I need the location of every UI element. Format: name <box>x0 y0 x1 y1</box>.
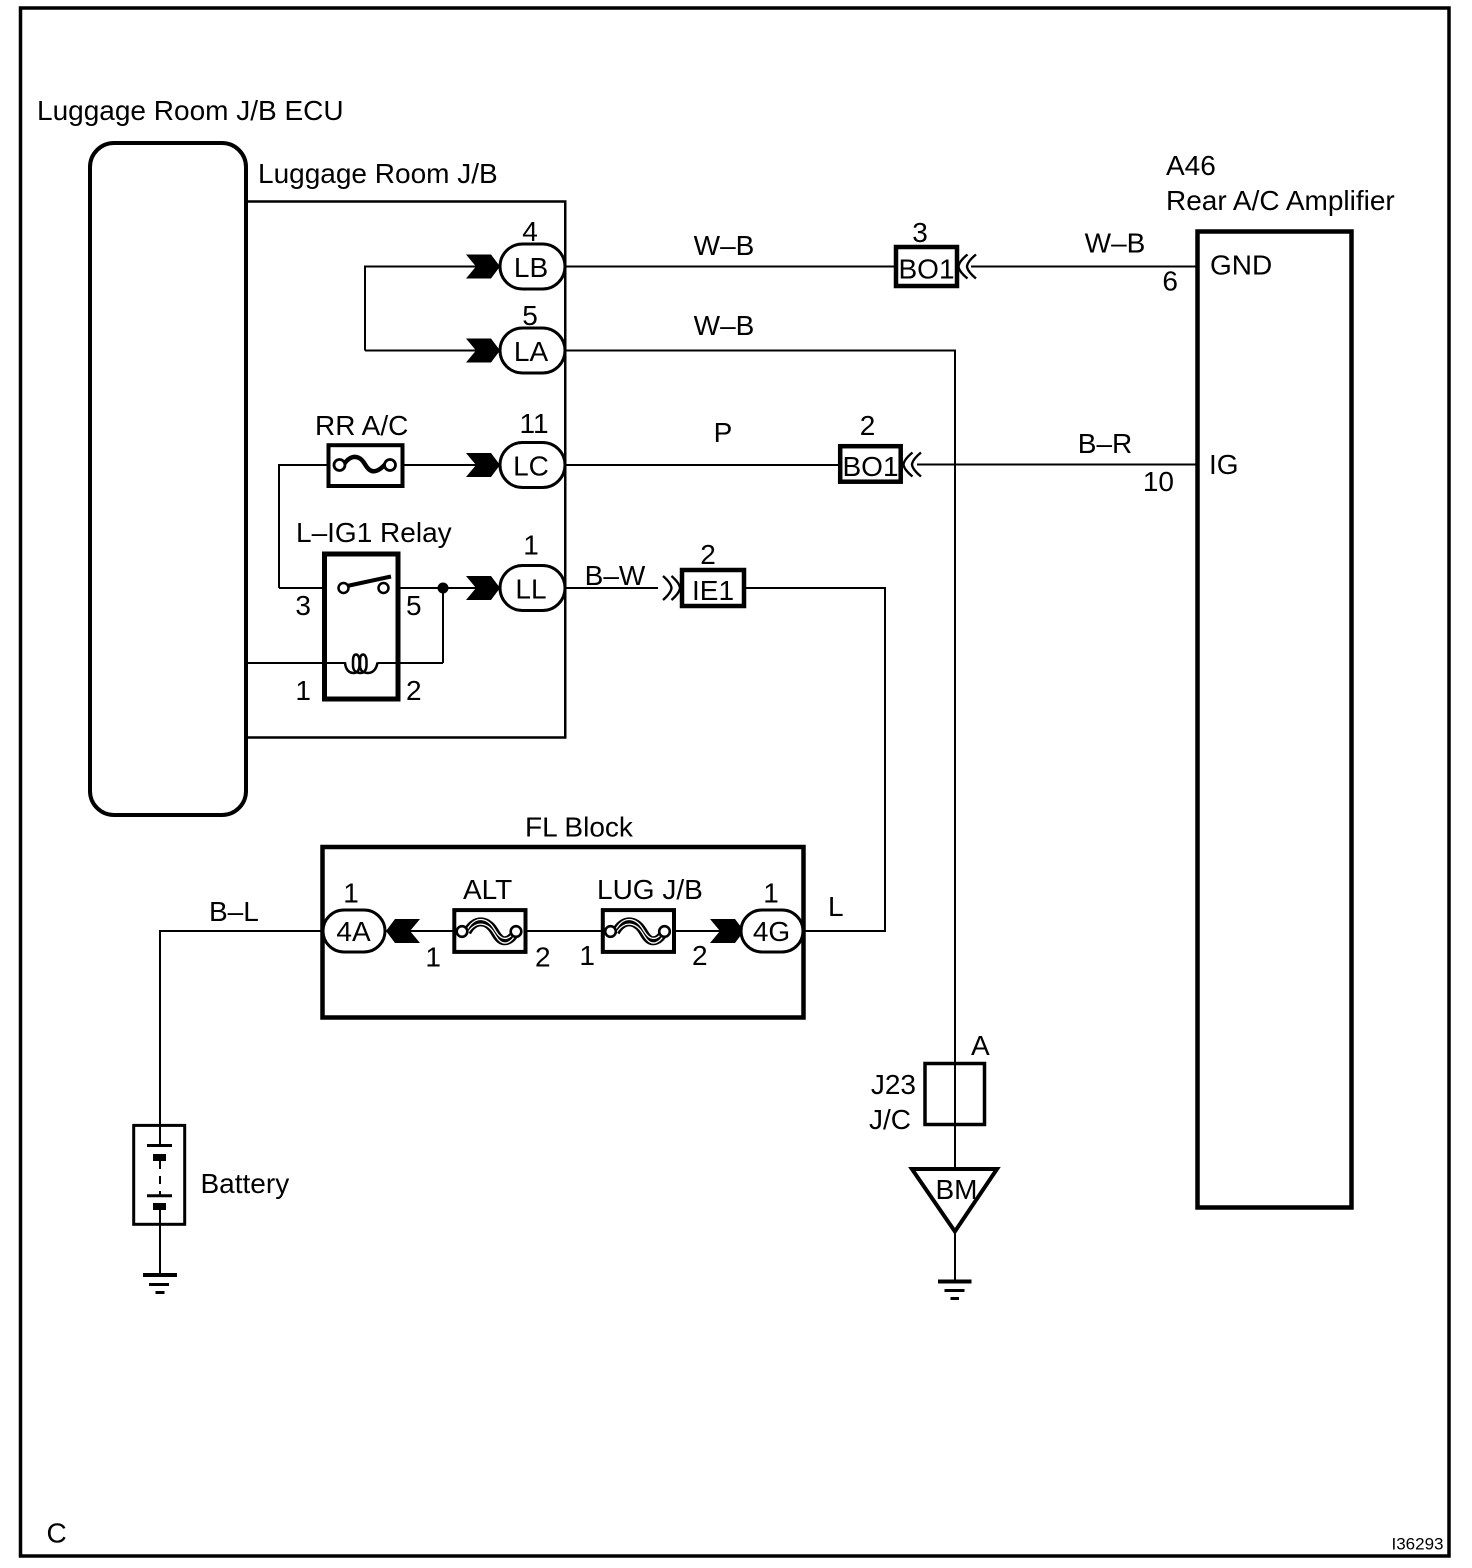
wire: into relay pin 3 <box>279 587 327 589</box>
svg-text:1: 1 <box>763 878 779 909</box>
junction connector J23 J/C <box>925 1064 985 1125</box>
relay coil <box>345 655 378 674</box>
relay coil lead right <box>378 662 397 664</box>
battery <box>134 1125 185 1224</box>
svg-text:2: 2 <box>700 539 716 570</box>
svg-text:A: A <box>971 1030 990 1061</box>
svg-text:11: 11 <box>519 408 548 439</box>
svg-text:LUG J/B: LUG J/B <box>597 874 703 905</box>
svg-text:LB: LB <box>514 252 548 283</box>
svg-text:W–B: W–B <box>1085 228 1146 259</box>
svg-text:LC: LC <box>513 451 549 482</box>
wire: battery to ground <box>159 1209 161 1275</box>
svg-text:Luggage Room J/B ECU: Luggage Room J/B ECU <box>37 95 344 126</box>
relay switch blade <box>347 577 391 587</box>
svg-text:1: 1 <box>343 878 359 909</box>
relay switch contact pin 5 <box>379 583 389 593</box>
wire: vertical to 4G <box>884 587 886 931</box>
svg-text:C: C <box>47 1518 67 1549</box>
svg-text:L: L <box>828 891 844 922</box>
arrow into LA <box>466 339 500 363</box>
svg-text:ALT: ALT <box>463 874 512 905</box>
svg-text:W–B: W–B <box>694 230 755 261</box>
arrow into LB <box>466 255 500 279</box>
svg-text:IE1: IE1 <box>692 575 734 606</box>
svg-text:BO1: BO1 <box>898 254 954 285</box>
connector BO1 (3) <box>896 247 957 286</box>
svg-text:FL Block: FL Block <box>525 812 634 843</box>
svg-text:A46: A46 <box>1166 150 1216 181</box>
ground (BM) <box>938 1282 972 1299</box>
FL block box <box>323 847 804 1018</box>
svg-text:2: 2 <box>406 675 422 706</box>
svg-text:5: 5 <box>522 300 538 331</box>
svg-text:B–W: B–W <box>585 560 646 591</box>
fuse RR A/C <box>329 445 403 486</box>
svg-text:BO1: BO1 <box>842 451 898 482</box>
wire: vertical from fuse to relay pin 3 <box>278 464 280 588</box>
svg-text:2: 2 <box>692 940 708 971</box>
svg-text:Luggage Room J/B: Luggage Room J/B <box>258 158 498 189</box>
svg-text:I36293: I36293 <box>1392 1535 1444 1554</box>
connector BO1 (2) <box>840 446 901 482</box>
svg-text:W–B: W–B <box>694 310 755 341</box>
arrow into LL <box>466 576 500 600</box>
svg-text:1: 1 <box>295 675 311 706</box>
arrow into LC <box>466 453 500 477</box>
svg-text:J23: J23 <box>871 1069 916 1100</box>
chevron into IE1 <box>663 576 680 600</box>
arrow into 4A <box>386 919 420 943</box>
svg-text:Battery: Battery <box>201 1168 290 1199</box>
svg-text:4A: 4A <box>336 916 371 947</box>
svg-text:B–L: B–L <box>209 896 259 927</box>
svg-text:RR A/C: RR A/C <box>315 410 408 441</box>
fusible link ALT <box>454 910 525 952</box>
wire: LC to BO1 (P) <box>565 464 840 466</box>
svg-text:BM: BM <box>936 1174 978 1205</box>
wire: LL to IE1 (B-W) <box>565 587 658 589</box>
svg-text:6: 6 <box>1162 266 1178 297</box>
wire: LA to vertical run (W-B) <box>565 350 956 352</box>
ECU block A46 Rear A/C Amplifier <box>1198 232 1352 1208</box>
connector 4G <box>741 910 803 952</box>
junction block: Luggage Room J/B <box>246 202 565 738</box>
ground (battery) <box>143 1275 177 1293</box>
svg-text:Rear A/C Amplifier: Rear A/C Amplifier <box>1166 185 1395 216</box>
connector LB <box>500 244 565 289</box>
connector LA <box>500 328 565 373</box>
chevron into BO1 (2) <box>904 453 922 477</box>
wire: LB-LA vertical link <box>364 266 366 351</box>
connector LC <box>500 443 565 488</box>
svg-text:3: 3 <box>912 217 928 248</box>
svg-text:IG: IG <box>1209 449 1239 480</box>
wire: vertical W-B run to BM junction <box>954 350 956 1170</box>
svg-text:10: 10 <box>1143 466 1174 497</box>
svg-text:5: 5 <box>406 590 422 621</box>
svg-text:1: 1 <box>523 530 539 561</box>
svg-text:2: 2 <box>860 410 876 441</box>
arrow into 4G <box>710 919 744 943</box>
wire: BM to ground <box>954 1232 956 1283</box>
wire: BO1 to A46 IG (B-R) <box>917 464 1196 466</box>
relay L-IG1 <box>325 554 399 699</box>
wire: LB-LA link left segment <box>365 266 500 268</box>
svg-text:1: 1 <box>579 940 595 971</box>
relay switch contact pin 3 <box>339 583 349 593</box>
relay coil lead left <box>327 662 346 664</box>
wire: vertical pin2 to node <box>442 588 444 663</box>
wire: FL block internal <box>384 930 744 932</box>
svg-text:GND: GND <box>1210 250 1272 281</box>
svg-text:J/C: J/C <box>869 1104 911 1135</box>
wire: link to LA <box>365 350 500 352</box>
wire: vertical B-L to battery <box>159 930 161 1146</box>
fusible link LUG J/B <box>603 910 674 952</box>
wire: LB to BO1 (W-B) <box>565 266 894 268</box>
wire: B-L from battery to 4A <box>160 930 323 932</box>
svg-text:3: 3 <box>295 590 311 621</box>
svg-text:L–IG1 Relay: L–IG1 Relay <box>296 517 452 548</box>
svg-text:1: 1 <box>425 942 441 973</box>
svg-text:LA: LA <box>514 336 549 367</box>
wire: BO1 to A46 GND (W-B) <box>971 266 1196 268</box>
junction node <box>438 583 449 594</box>
wire: fuse to LC arrow <box>403 464 500 466</box>
wire: fuse left lead <box>279 464 330 466</box>
wire: ECU to relay coil pin 1 <box>247 662 324 664</box>
wire: to 4G (L) <box>803 930 886 932</box>
wire: IE1 toward FL block <box>746 587 886 589</box>
wire: relay pin 5 to LL <box>398 587 500 589</box>
ECU block: Luggage Room J/B ECU <box>90 143 246 815</box>
svg-text:4: 4 <box>522 216 538 247</box>
chevron into BO1 (3) <box>959 255 977 279</box>
svg-text:B–R: B–R <box>1078 428 1132 459</box>
ground point BM triangle <box>912 1169 997 1232</box>
svg-text:LL: LL <box>515 574 546 605</box>
connector 4A <box>323 910 385 952</box>
svg-text:4G: 4G <box>753 916 790 947</box>
svg-text:P: P <box>714 417 733 448</box>
connector LL <box>500 566 565 611</box>
wire: relay coil pin 2 to junction <box>398 662 443 664</box>
connector IE1 <box>682 570 744 606</box>
svg-text:2: 2 <box>535 942 551 973</box>
